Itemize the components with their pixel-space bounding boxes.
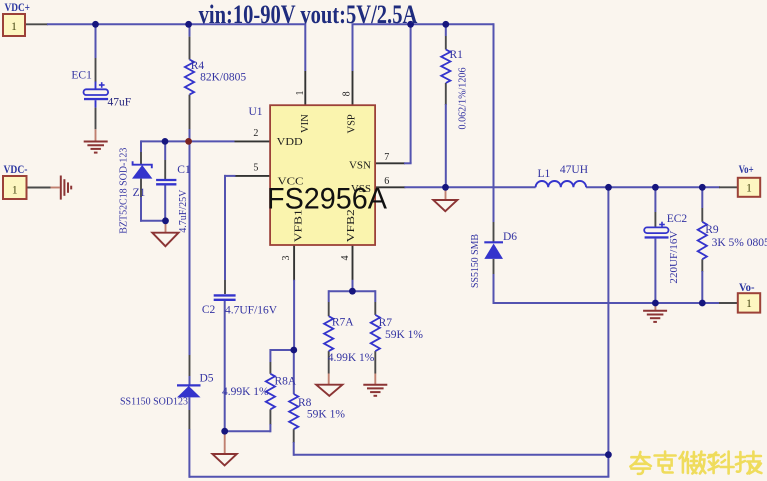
wire - EC2 column: [654, 187, 656, 212]
wire - pin7 VSN horizontal: [375, 162, 405, 164]
wire - C1 ground stem: [165, 221, 167, 233]
svg-text:C2: C2: [202, 304, 216, 316]
wire - R8A bottom row y=431.3: [225, 430, 271, 432]
ground - power triangle below Z1/C1: [152, 233, 178, 247]
svg-text:D5: D5: [200, 373, 214, 385]
junction - feedback/R8 node: [605, 451, 612, 458]
diode D6: [484, 244, 503, 259]
wire - C1 top lead: [164, 141, 166, 160]
wire - R4 bottom lead to pin2 row: [189, 95, 191, 130]
svg-text:VDD: VDD: [277, 136, 303, 148]
svg-text:47uF: 47uF: [108, 96, 132, 108]
ground - earth below EC2 on Vo- row: [643, 310, 667, 312]
svg-text:4.99K 1%: 4.99K 1%: [328, 352, 375, 364]
wire - pin2 VDD row: [141, 140, 235, 142]
wire - pin4 VFB2 vertical: [352, 245, 354, 281]
junction - Z1/C1 ground node: [162, 217, 169, 224]
svg-text:SS1150 SOD123: SS1150 SOD123: [120, 396, 188, 408]
inductor L1: [536, 181, 587, 187]
svg-text:2: 2: [253, 128, 258, 139]
wire - D5 anode to bottom rail: [188, 397, 190, 410]
wire - R7 bottom lead and stem: [374, 351, 376, 373]
wire - VDC- stub: [27, 187, 51, 189]
wire - pin6 VSS row: [375, 186, 405, 188]
svg-text:VSP: VSP: [347, 114, 358, 133]
svg-text:3K 5% 0805: 3K 5% 0805: [712, 237, 767, 249]
resistor R1: [441, 50, 450, 84]
wire - D6 anode down to Vo- row: [493, 259, 495, 275]
svg-text:4.7uF/25V: 4.7uF/25V: [177, 190, 189, 233]
svg-text:59K 1%: 59K 1%: [307, 409, 345, 421]
wire - left bus x=189.5 top (rail to R4): [189, 23, 191, 36]
svg-text:47UH: 47UH: [560, 164, 588, 176]
ground - power triangle at VSS/R1: [433, 200, 457, 211]
svg-text:C1: C1: [177, 164, 191, 176]
svg-text:59K 1%: 59K 1%: [385, 329, 423, 341]
junction - R1 tap on VSP rail: [442, 21, 449, 28]
capacitor EC2 (polarized): [644, 227, 668, 233]
ground - earth below EC1: [84, 141, 108, 143]
resistor R8: [289, 394, 298, 429]
port Vo-: [738, 293, 760, 312]
wire - R7A top lead: [328, 290, 330, 302]
svg-text:R7: R7: [379, 317, 393, 329]
wire - pin5 VCC row: [235, 175, 271, 177]
svg-text:R1: R1: [450, 49, 464, 61]
wire - VSS ground stem: [445, 187, 447, 200]
wire - C2 ground stem: [224, 431, 226, 454]
capacitor C2: [214, 294, 236, 296]
svg-text:Z1: Z1: [133, 187, 146, 199]
wire - VSN riser x=410.6: [410, 24, 412, 163]
wire - R8A top row y=350: [270, 349, 293, 351]
svg-text:D6: D6: [503, 231, 517, 243]
wire - switch-node riser x=493.5 (rail to D6): [493, 23, 495, 222]
wire - Z1 top lead: [140, 140, 142, 152]
svg-text:4.99K 1%: 4.99K 1%: [222, 386, 269, 398]
svg-text:5: 5: [253, 162, 258, 173]
junction - EC2 tap on Vo- row: [652, 300, 659, 307]
svg-text:R7A: R7A: [332, 317, 354, 329]
wire - R7 top lead: [374, 290, 376, 302]
diode D5: [177, 386, 201, 397]
junction - VFB1/R8A node: [290, 347, 297, 354]
port VDC+: [3, 14, 25, 36]
resistor R9: [698, 222, 707, 259]
svg-text:VIN: VIN: [300, 114, 311, 133]
junction - VFB2 node: [349, 288, 356, 295]
svg-text:R8: R8: [298, 397, 312, 409]
svg-text:VDC+: VDC+: [5, 0, 31, 14]
svg-text:R8A: R8A: [275, 376, 297, 388]
wire - R8A bottom lead: [269, 409, 271, 425]
wire - feedback column x=608.4: [607, 187, 609, 476]
wire - R7A bottom lead and stem: [328, 351, 330, 373]
wire - R8A top lead: [269, 349, 271, 362]
svg-text:FS2956A: FS2956A: [267, 183, 387, 216]
wire - Z1 bottom lead: [140, 179, 142, 198]
wire - C1 bottom lead: [164, 186, 166, 221]
junction - R1/VSS ground node: [442, 184, 449, 191]
svg-text:4.7UF/16V: 4.7UF/16V: [225, 305, 278, 317]
svg-text:3: 3: [281, 256, 292, 261]
ground - earth rotated at VDC-: [60, 176, 62, 200]
ground - earth below R7: [363, 384, 387, 386]
wire - pin3 VFB1 vertical: [293, 245, 295, 281]
junction - C1 tap on VDD row: [162, 138, 169, 145]
wire - Z1/C1 bottom row: [140, 220, 166, 222]
wire - feedback row y=454.8: [294, 454, 609, 456]
ground - power triangle below C2: [212, 454, 236, 466]
wire - EC1 column bottom: [95, 100, 97, 107]
wire - C2 column lower: [224, 301, 226, 432]
op-amp U1 FS2956A body: [270, 105, 375, 245]
svg-text:1: 1: [295, 91, 306, 96]
junction - R9 tap on Vo- row: [699, 300, 706, 307]
wire - bottom rail y=476.8: [189, 476, 609, 478]
svg-text:Vo+: Vo+: [739, 162, 754, 176]
svg-text:1: 1: [746, 298, 752, 310]
wire - left bus pin2 row to D5: [189, 141, 191, 355]
wire - R9 column: [701, 187, 703, 208]
svg-text:L1: L1: [538, 168, 551, 180]
svg-text:4: 4: [340, 256, 351, 261]
junction - EC1 tap on input rail: [92, 21, 99, 28]
wire - R8 bottom lead: [293, 429, 295, 443]
svg-text:vin:10-90V vout:5V/2.5A: vin:10-90V vout:5V/2.5A: [199, 0, 418, 29]
svg-text:VSN: VSN: [349, 160, 371, 172]
resistor R8A: [266, 374, 275, 410]
junction - R4 tap on input rail: [185, 21, 192, 28]
svg-text:8: 8: [342, 91, 353, 96]
junction dot maroon at pin2/bus crossing: [185, 138, 192, 145]
svg-text:1: 1: [746, 183, 752, 195]
svg-text:U1: U1: [249, 106, 263, 118]
capacitor EC1 (polarized): [84, 89, 109, 95]
svg-text:0.062/1%/1206: 0.062/1%/1206: [457, 67, 469, 129]
svg-text:R4: R4: [191, 60, 205, 72]
wire - top rail left (VDC+ to VIN pin): [25, 23, 48, 25]
svg-text:1: 1: [11, 21, 17, 33]
svg-text:1: 1: [12, 185, 18, 197]
wire - pin8 VSP vertical: [352, 23, 354, 71]
ground - power triangle below R7A: [316, 385, 342, 396]
svg-text:VDC-: VDC-: [4, 162, 28, 176]
svg-text:220UF/16V: 220UF/16V: [668, 231, 680, 284]
wire - R1 column: [445, 23, 447, 36]
svg-text:7: 7: [384, 152, 389, 163]
port Vo+: [738, 178, 760, 197]
zener diode Z1: [132, 165, 152, 179]
svg-text:BZT52C18 SOD-123: BZT52C18 SOD-123: [119, 148, 130, 234]
junction - feedback tap on output row: [605, 184, 612, 191]
junction - VSN riser on VSP rail: [407, 21, 414, 28]
resistor R7A: [324, 316, 333, 351]
wire - pin3 to R8: [293, 350, 295, 394]
port VDC-: [3, 176, 27, 199]
junction - C2/R8A ground node: [221, 428, 228, 435]
wire - R7A/R7 top row y=291.2: [329, 290, 376, 292]
svg-text:EC1: EC1: [71, 70, 92, 82]
svg-text:R9: R9: [705, 224, 719, 236]
svg-text:Vo-: Vo-: [739, 280, 755, 294]
watermark yellow CJK text: [630, 452, 761, 474]
wire - EC2 ground stem: [654, 303, 656, 311]
resistor R7: [371, 315, 380, 351]
wire - top rail right (VSP segment): [353, 23, 494, 25]
resistor R4: [185, 60, 194, 95]
svg-text:EC2: EC2: [667, 213, 688, 225]
wire - Vo- row y=303: [494, 302, 721, 304]
svg-text:SS5150 SMB: SS5150 SMB: [469, 234, 481, 288]
wire - EC1 column top: [95, 23, 97, 58]
junction - EC2 tap on output row: [652, 184, 659, 191]
capacitor C1: [156, 179, 176, 181]
junction - R9 tap on output row: [699, 184, 706, 191]
wire - C2 column upper: [224, 175, 226, 280]
wire - pin1 VIN vertical: [304, 23, 306, 71]
svg-text:82K/0805: 82K/0805: [200, 72, 246, 84]
